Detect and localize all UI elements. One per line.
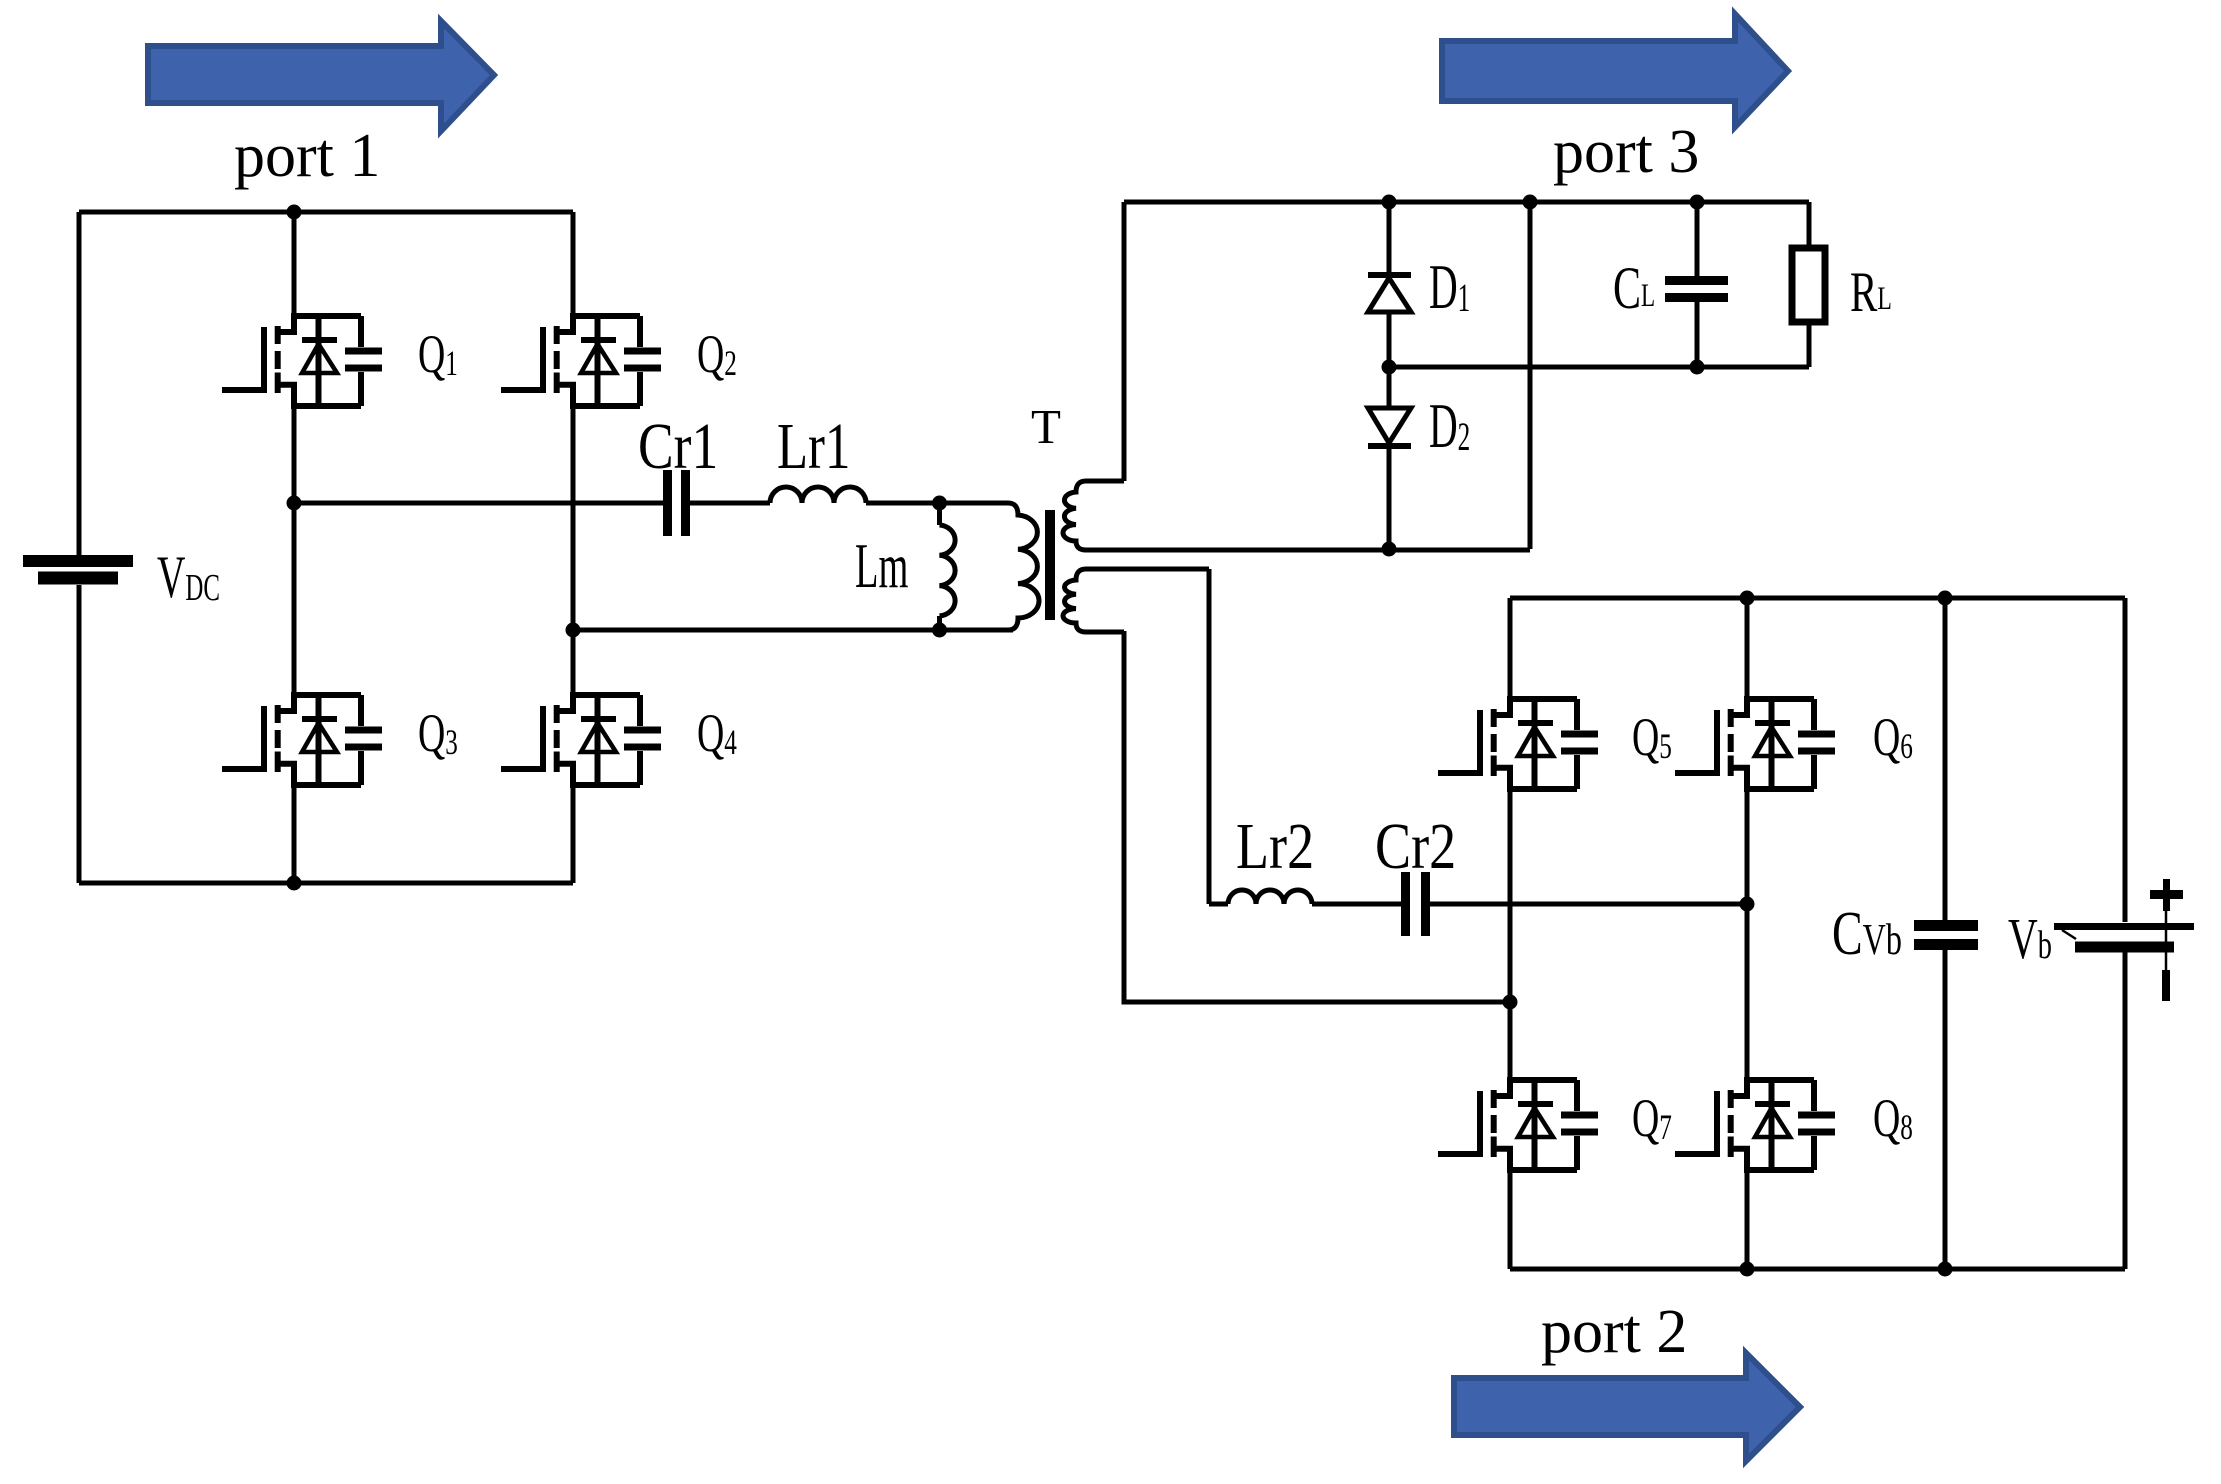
svg-text:Cr2: Cr2 <box>1375 810 1456 883</box>
svg-text:Cr1: Cr1 <box>638 409 718 483</box>
svg-text:Lr1: Lr1 <box>777 410 850 483</box>
svg-text:Lm: Lm <box>855 533 908 602</box>
svg-text:port 3: port 3 <box>1553 118 1699 186</box>
svg-text:T: T <box>1031 399 1061 454</box>
svg-text:port 1: port 1 <box>234 122 380 190</box>
svg-text:port 2: port 2 <box>1541 1298 1687 1366</box>
svg-text:Lr2: Lr2 <box>1236 810 1314 883</box>
